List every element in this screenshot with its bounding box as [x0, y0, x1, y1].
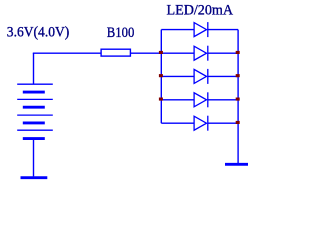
junction dot right bus row4: [236, 98, 240, 101]
resistor B100: [101, 49, 130, 56]
wire battery plus to resistor: [33, 52, 101, 54]
LED D3: [194, 69, 208, 84]
wire battery bottom vertical to ground: [33, 139, 35, 177]
wire row4 cathode: [208, 99, 238, 101]
battery plate long 4: [17, 129, 53, 131]
junction dot right bus row5: [236, 121, 240, 124]
battery plate short 3: [23, 121, 45, 124]
battery BT1: [17, 84, 53, 138]
svg-text:LED/20mA: LED/20mA: [167, 2, 234, 18]
wire left bus: [160, 30, 162, 124]
battery plate short 1: [23, 91, 45, 94]
wire row5 anode: [161, 122, 194, 124]
battery plate long 1: [17, 83, 53, 85]
wire row1 cathode: [208, 29, 238, 31]
LED D4: [194, 92, 208, 107]
battery plate short 2: [23, 106, 45, 109]
svg-text:B100: B100: [107, 25, 135, 41]
battery plate long 2: [17, 98, 53, 100]
wire row1 anode: [161, 29, 194, 31]
LED D2: [194, 46, 208, 61]
battery plate short 4: [23, 137, 45, 140]
junction dot left bus row3: [159, 74, 163, 77]
battery plate long 3: [17, 114, 53, 116]
wire right bus: [237, 30, 239, 163]
ground left: [21, 176, 48, 179]
wire row3 anode: [161, 75, 194, 77]
junction dot left bus row4: [159, 98, 163, 101]
junction dot right bus row2: [236, 51, 240, 54]
ground right: [225, 163, 248, 166]
junction dot right bus row3: [236, 74, 240, 77]
wire resistor to LED row2 through left bus junction: [130, 52, 194, 54]
wire row3 cathode: [208, 75, 238, 77]
wire battery top vertical: [33, 53, 35, 84]
LED D5: [194, 116, 208, 131]
wire row2 cathode: [208, 52, 238, 54]
LED D1: [194, 22, 208, 37]
svg-text:3.6V(4.0V): 3.6V(4.0V): [7, 24, 70, 40]
wire row4 anode: [161, 99, 194, 101]
wire row5 cathode: [208, 122, 238, 124]
junction dot left bus row2: [159, 51, 163, 54]
